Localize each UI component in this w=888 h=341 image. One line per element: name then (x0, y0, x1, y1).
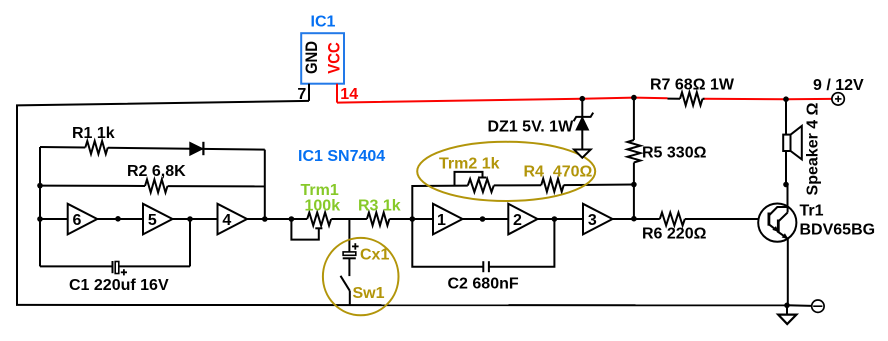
svg-text:R6 220Ω: R6 220Ω (642, 226, 707, 243)
node: gate6 out (115, 216, 121, 222)
op-amp gate 1 (433, 204, 463, 235)
wire: collector vertical (787, 207, 789, 213)
wire: row from node up (412, 186, 468, 219)
resistor R2 (145, 180, 167, 193)
op-amp gate 6 (68, 204, 98, 235)
node: Trm2 row / R5 (631, 182, 637, 188)
svg-text:R1 1k: R1 1k (72, 125, 115, 142)
node: gate3 out (631, 216, 637, 222)
svg-text:Trm2 1k: Trm2 1k (439, 156, 500, 173)
svg-text:VCC: VCC (325, 42, 344, 74)
speaker SP1 (783, 126, 802, 159)
node: gate1 out (480, 216, 486, 222)
svg-text:Tr1: Tr1 (800, 203, 824, 220)
node: gate5 out (187, 216, 193, 222)
node: speaker bottom (783, 182, 789, 188)
battery plus terminal (832, 93, 844, 105)
wire: right vertical of block (264, 150, 266, 219)
wire: gate5 out to gate4 (173, 218, 218, 220)
node: Trm1 left (289, 216, 295, 222)
wire: pin7 stub (308, 84, 310, 101)
wire: left vertical of block (39, 147, 41, 266)
svg-text:C2 680nF: C2 680nF (448, 276, 519, 293)
resistor R6 (660, 213, 685, 226)
svg-text:Cx1: Cx1 (360, 247, 389, 264)
transistor Tr1 (darlington) (758, 204, 796, 242)
resistor R7 (on red rail, black) (668, 92, 705, 105)
wire: pin14 stub (red) (336, 84, 338, 103)
node: gate4 out (262, 216, 268, 222)
wire: gate1 out to gate2 (463, 218, 509, 220)
node: gate1 in (410, 216, 416, 222)
diode D1 (190, 142, 203, 155)
wire: gate2 out to gate3 (538, 218, 584, 220)
svg-text:5: 5 (148, 212, 157, 229)
svg-text:9 / 12V: 9 / 12V (813, 77, 864, 94)
resistor R1 (85, 141, 107, 154)
wire: VCC red rail (337, 98, 668, 103)
wire: gate6 out to gate5 (97, 218, 143, 220)
svg-text:C1 220uf 16V: C1 220uf 16V (69, 277, 169, 294)
node: emitter / ground rail (784, 303, 790, 309)
node: left vertical / R2 row (37, 183, 43, 189)
svg-text:Speaker 4 Ω: Speaker 4 Ω (805, 102, 822, 195)
wire: node to gate6 (40, 218, 68, 220)
svg-text:3: 3 (588, 212, 597, 229)
switch Sw1 (341, 276, 350, 305)
node: DZ1 on rail (580, 96, 586, 102)
trimmer Trm2 (455, 172, 494, 192)
svg-text:14: 14 (340, 86, 358, 103)
resistor R3 (367, 213, 390, 226)
svg-text:BDV65BG: BDV65BG (800, 222, 876, 239)
node: R5 on rail (631, 95, 637, 101)
trimmer Trm1 (291, 213, 331, 240)
wire: speaker to collector (786, 151, 788, 207)
node: gate2 out (552, 216, 558, 222)
resistor R5 (vertical) (627, 98, 640, 219)
svg-text:R7 68Ω 1W: R7 68Ω 1W (650, 77, 735, 94)
wire: R1/diode top row (40, 146, 85, 149)
svg-text:4: 4 (222, 212, 231, 229)
svg-text:IC1 SN7404: IC1 SN7404 (298, 148, 385, 165)
svg-text:IC1: IC1 (311, 14, 336, 31)
op-amp gate 3 (583, 204, 613, 235)
svg-text:6: 6 (73, 212, 82, 229)
wire: C1 right vertical (189, 219, 191, 266)
wire: gnd rail top-left (17, 101, 309, 305)
svg-text:R2 6,8K: R2 6,8K (127, 163, 186, 180)
capacitor Cx1 branch (343, 219, 359, 276)
svg-text:GND: GND (302, 41, 321, 74)
capacitor C2 branch (412, 219, 554, 272)
wire: gate4 out across Trm1/R3 to gate1 (247, 218, 307, 220)
olive ellipse around Trm2/R4 (417, 142, 595, 201)
svg-text:Sw1: Sw1 (353, 285, 385, 302)
wire: rail to speaker (785, 99, 787, 134)
svg-text:R5 330Ω: R5 330Ω (642, 145, 707, 162)
svg-text:2: 2 (513, 212, 522, 229)
battery minus terminal (787, 300, 824, 312)
node: left vertical / main row (37, 216, 43, 222)
op-amp gate 2 (508, 204, 537, 235)
wire: bottom ground rail (16, 304, 787, 306)
IC1 power box (301, 33, 344, 83)
svg-text:R4 470Ω: R4 470Ω (524, 164, 593, 181)
wire: gate3 out through R6 to transistor (613, 218, 660, 220)
wire: emitter vertical (787, 239, 789, 305)
svg-text:DZ1 5V. 1W: DZ1 5V. 1W (488, 119, 575, 136)
node: speaker on rail (783, 96, 789, 102)
svg-text:R3 1k: R3 1k (358, 198, 401, 215)
op-amp gate 4 (218, 204, 248, 235)
olive circle around Cx1/Sw1 (323, 238, 399, 315)
wire: C1 row (40, 265, 113, 267)
capacitor C1 (112, 261, 114, 273)
resistor R4 (541, 179, 564, 192)
svg-text:100k: 100k (305, 198, 341, 215)
op-amp gate 5 (143, 204, 173, 235)
svg-text:Trm1: Trm1 (301, 182, 339, 199)
svg-text:1: 1 (437, 212, 446, 229)
wire: R2 row (40, 185, 145, 187)
ground symbol bottom right (778, 305, 796, 324)
zener diode DZ1 (574, 99, 594, 158)
